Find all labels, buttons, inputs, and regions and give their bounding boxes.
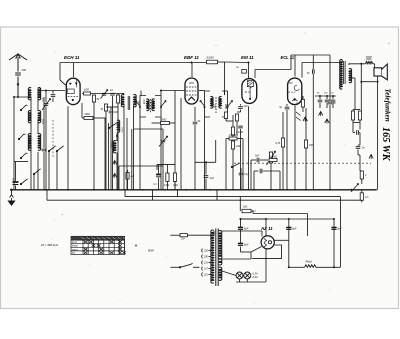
wire em left drop [225, 139, 227, 190]
wire 330 rail upper [329, 63, 331, 102]
wire AZ heater loop [252, 245, 282, 259]
svg-text:Zf = 468 kHz: Zf = 468 kHz [40, 243, 59, 247]
claw contact tone 1 [319, 112, 323, 117]
wire grid cap tail [52, 98, 54, 103]
svg-text:200: 200 [21, 68, 27, 72]
wire AF to ECL grid [263, 170, 280, 172]
svg-text:0,8: 0,8 [181, 238, 185, 241]
ground main [8, 190, 14, 205]
svg-text:0,1MΩ: 0,1MΩ [229, 134, 236, 137]
capacitor EM 50p [238, 126, 243, 128]
resistor 2M AVC [161, 122, 170, 125]
capacitor electrolytic divider [156, 175, 161, 177]
wire EM drop [240, 129, 242, 190]
wire EBF cath drop [194, 125, 196, 190]
antenna symbol [9, 54, 27, 97]
wire tap stub 150 [209, 256, 211, 258]
scan fleck [135, 245, 137, 247]
svg-text:Telefunken: Telefunken [383, 89, 391, 122]
stub pri top [213, 231, 215, 235]
svg-text:EM 11: EM 11 [241, 55, 254, 60]
speaker LS [374, 64, 387, 80]
resistor right 0.3M [360, 171, 363, 179]
svg-text:Mittel: Mittel [72, 245, 78, 248]
wire div cap down [158, 178, 160, 190]
svg-text:U50: U50 [84, 88, 89, 92]
capacitor filter 8uF a [238, 228, 243, 230]
stub res up [127, 170, 129, 173]
stub cap left [353, 132, 355, 134]
wire tap stub 110 [209, 274, 211, 276]
wire between osc coils [116, 133, 118, 141]
wire fuse to trafo [187, 234, 214, 236]
wire C1 top [45, 91, 47, 103]
capacitor 1n lower [204, 176, 209, 178]
svg-text:0,05M: 0,05M [207, 56, 215, 60]
stub [225, 119, 227, 122]
capacitor padder 100 [109, 111, 114, 113]
wire right down3 [359, 155, 361, 171]
wire chain link [232, 121, 234, 127]
scan flecks group [51, 32, 390, 303]
capacitor ECL 10n [312, 69, 314, 74]
wire C2 drop [162, 143, 164, 190]
junction osc coils [116, 135, 118, 137]
wire stub EM [254, 70, 256, 79]
wire det out row [195, 161, 216, 163]
junction tone a [319, 95, 321, 97]
tube internals U4 ECL11 [289, 83, 300, 101]
wire lamp bottom [236, 281, 266, 283]
svg-text:0,18: 0,18 [41, 119, 44, 124]
wire EBF g drop [180, 98, 182, 190]
capacitor right 0.1 [357, 130, 359, 135]
selector contact 110 [201, 273, 204, 277]
svg-text:0,2: 0,2 [41, 98, 44, 102]
wire C1 drop [45, 107, 47, 190]
svg-text:1MΩ: 1MΩ [173, 185, 178, 187]
svg-text:6,3V: 6,3V [253, 272, 258, 275]
inductor output trafo secondary [349, 69, 352, 83]
capacitor tone 0.1 [239, 173, 244, 175]
switch tone [231, 163, 239, 168]
wire det up [215, 140, 217, 162]
resistor osc 50k [104, 104, 107, 111]
stub [122, 93, 124, 95]
wire S5 drop [33, 174, 35, 190]
svg-text:0,58: 0,58 [142, 100, 144, 105]
table waveband chart frame [71, 236, 125, 254]
wire C2 top stub [162, 129, 164, 139]
stub2 [302, 107, 304, 112]
tail tb [326, 103, 328, 108]
wire antenna coil rail B [37, 88, 39, 111]
wire antenna input horizontal [14, 96, 31, 98]
capacitor antenna series [15, 72, 21, 77]
wire osc coil drop [116, 153, 118, 190]
wire osc grid link [105, 111, 107, 118]
selector contact 127 [201, 267, 204, 271]
wire diag to tube [251, 247, 262, 253]
svg-text:165 WK: 165 WK [380, 127, 391, 162]
resistor 2M osc grid [84, 117, 93, 120]
stub up [232, 115, 234, 121]
wire coil to ECH grid [40, 90, 65, 92]
wire switch drop b [48, 151, 50, 190]
wire AF cap in [254, 170, 258, 172]
wire ECL screen [301, 63, 303, 78]
junction bus x287 [286, 189, 288, 191]
wire em left stub [226, 138, 229, 140]
tube envelope U4 ECL11 [288, 78, 302, 105]
potentiometer volume track [269, 152, 272, 163]
wire switch out to selector [193, 266, 200, 268]
tube envelope U3 EM11 [242, 79, 257, 104]
stub res [117, 94, 119, 96]
wire EM-ECL row [255, 69, 291, 71]
junction rail branch [360, 81, 362, 83]
junction B+ a [288, 218, 290, 220]
inductor coupling La [121, 95, 124, 107]
capacitor EM 2u [238, 107, 243, 109]
wire res50 drop [93, 102, 95, 190]
diode arrows ECL [296, 112, 301, 121]
capacitor block 0.04 lower left [13, 182, 19, 185]
variable capacitor tuning C1 [44, 104, 49, 106]
wire drop 177 to line B [177, 190, 179, 197]
wire IF2 pri drop [204, 117, 206, 190]
svg-text:Lang: Lang [72, 248, 78, 251]
wire chain mid [232, 135, 234, 141]
junction IF2 trim b [227, 106, 229, 108]
wire AZ cathode out [274, 239, 289, 241]
wire stub up line B [124, 190, 126, 197]
wire res out [93, 117, 106, 119]
bracket IF1 secondary [155, 96, 161, 118]
wire speaker bottom rail [377, 76, 379, 190]
mechanical link dashed tone [234, 162, 371, 164]
wire tone net top [315, 95, 336, 97]
svg-text:1nΩ: 1nΩ [210, 178, 215, 180]
svg-text:ECL 11: ECL 11 [281, 55, 295, 60]
resistor 0.7M [269, 159, 277, 162]
junction bus x295 [294, 189, 296, 191]
wire IF1 sec top [160, 91, 162, 96]
wire 330 rail lower [329, 105, 331, 190]
wire drop to line A [46, 190, 48, 200]
wire cap rail 334 down [333, 219, 335, 267]
claw contact osc 2 [113, 174, 117, 178]
tube envelope U2 EBF11 [185, 78, 198, 104]
bracket IF1 primary [140, 96, 146, 118]
svg-text:220: 220 [203, 251, 209, 253]
svg-text:5nF: 5nF [255, 155, 260, 158]
capacitor trimmer grid [102, 93, 107, 95]
wire pot drop [270, 163, 272, 190]
wire to AF cap [251, 159, 256, 161]
wire extend D line [241, 218, 267, 220]
stub lamp1 down [239, 279, 241, 282]
junction IF1 [160, 90, 162, 92]
inductor IF1 primary [147, 99, 150, 111]
inductor secondary heater [219, 267, 222, 280]
wire stub cap ECL [312, 55, 314, 69]
wire right down2 [359, 133, 361, 146]
inductor osc coil L4 [117, 120, 120, 132]
wire res to IF2 [218, 61, 225, 63]
junction speaker bottom [377, 81, 379, 83]
wire left rail vertical [13, 97, 15, 190]
tail ta [319, 103, 321, 108]
inductor field coil [305, 265, 317, 268]
wire res drop [117, 103, 119, 190]
svg-text:150: 150 [309, 144, 314, 147]
stub 160 out [251, 210, 253, 212]
wire tap stub 127 [209, 268, 211, 270]
resistor ECL cath 150 [304, 140, 307, 148]
junction bus x330 [329, 189, 331, 191]
fuse 0.8A [180, 234, 187, 237]
tube internals U2 EBF11 [186, 83, 196, 101]
wire div res down [166, 181, 168, 189]
switch S7 [56, 146, 63, 152]
wire padder top [110, 107, 112, 110]
adjust arrow IF2 trim b [228, 101, 233, 107]
wire EBF cathode down [194, 107, 196, 121]
stub to line [361, 200, 363, 202]
junction IF2 trim a [204, 106, 206, 108]
stub [357, 144, 359, 147]
core coupling transformer [128, 96, 130, 110]
capacitor tone on output [328, 102, 333, 104]
wire IF1 pri drop [139, 117, 141, 190]
wire grid leak drop [282, 147, 284, 190]
table grid [71, 236, 125, 254]
wire rail to res 0.05M [161, 62, 207, 64]
switch osc S8 [108, 123, 116, 129]
wire AF cap out [260, 159, 268, 161]
wire line D y219 [241, 218, 335, 220]
wire tone stub [240, 168, 242, 172]
wire cap feed up [240, 219, 242, 227]
junction feed [265, 218, 267, 220]
junction D left [240, 218, 242, 220]
wire AVC into tube grid [60, 80, 66, 85]
inductor mains primary [211, 230, 214, 283]
wire sec top stub [348, 63, 350, 65]
wire pair bottom [353, 122, 360, 124]
bracket IF2 secondary [222, 91, 228, 117]
capacitor tone a [318, 100, 323, 102]
tail tc [332, 103, 334, 108]
svg-text:0,04: 0,04 [13, 177, 16, 182]
wire em res link [237, 138, 243, 140]
junction antenna node [17, 96, 19, 98]
table X marks [84, 241, 126, 254]
stub down [361, 179, 363, 184]
wire left tail [156, 164, 158, 170]
stub down [252, 211, 254, 214]
junction right pot on bus [350, 189, 352, 191]
wire grid cap stub [52, 91, 54, 94]
svg-text:8µF: 8µF [244, 228, 249, 231]
wire EM plate top [248, 63, 250, 79]
wire up hv [250, 252, 252, 259]
junction bus x94 [93, 189, 95, 191]
wire grid leak up [282, 112, 284, 138]
switch S6 [48, 146, 55, 152]
wire em link [240, 110, 242, 113]
wire ECL top rail [291, 54, 330, 56]
wire line C y213 [253, 213, 308, 215]
junction B+ b [333, 218, 335, 220]
wire AVC stub [152, 122, 161, 124]
junction EM plate rail [248, 62, 250, 64]
inductor coupling Lb [134, 95, 137, 107]
wire 307 down [307, 214, 309, 237]
wire HV top to AZ anode [222, 230, 262, 232]
wire B+ right rail top [360, 64, 362, 111]
wire rail over EM [225, 61, 249, 64]
capacitor EM top nipple [242, 70, 247, 74]
resistor right lower 0.3M [360, 193, 363, 201]
wire heater to lamp [222, 271, 236, 276]
wire chain drop [232, 149, 234, 190]
wire IF2 top feed stub [224, 91, 226, 95]
selector contact 220 [201, 249, 204, 253]
inductor IF1 secondary [152, 99, 155, 111]
wire field coil out [316, 266, 340, 268]
wire heater line A [47, 199, 362, 201]
junction bus x45 [44, 189, 46, 191]
svg-text:2000: 2000 [365, 58, 372, 61]
switch S4 [20, 179, 27, 185]
wire pair top [353, 109, 360, 111]
capacitor tone b [325, 100, 330, 102]
wire chain top link [226, 120, 233, 122]
capacitor electrolytic 8uF c [286, 228, 291, 230]
wire ECH plate top [73, 63, 75, 78]
stub4 [358, 154, 360, 156]
wire speaker branch to rail [361, 81, 377, 83]
wire AVC left drop [59, 63, 61, 81]
wire trafo pri top stub [341, 60, 343, 63]
tube internals U1 ECH11 [67, 80, 78, 101]
wire HV bottom out [222, 258, 251, 260]
switch band S1 [20, 105, 27, 111]
svg-text:TA: TA [72, 252, 75, 255]
junction bus x210 [209, 189, 211, 191]
svg-text:EBF 11: EBF 11 [184, 55, 199, 60]
resistor 0.05M screen [207, 60, 218, 64]
wire line B y196 [125, 196, 341, 198]
lamp pilot 2 [244, 272, 251, 279]
resistor EM 1M [235, 114, 238, 121]
adjust arrow IF1 trim a [136, 101, 140, 106]
resistor chain 1M [231, 141, 234, 149]
stub ta [319, 96, 321, 99]
wire branch down to 160ohm [239, 197, 241, 211]
wire between caps [240, 230, 242, 243]
capacitor 10n [110, 93, 115, 95]
capacitor ECL cath 5u [285, 107, 290, 109]
resistor osc 25 [126, 173, 129, 180]
switch S5 [33, 169, 40, 175]
stub pa [352, 110, 354, 112]
inductor antenna coil L2b [38, 111, 41, 123]
wire ground bus [10, 189, 377, 191]
wire osc rail 5 [131, 129, 133, 190]
stub [240, 104, 242, 106]
mechanical link dashed [52, 120, 54, 158]
inductor IF2 secondary [219, 97, 222, 109]
wire ECL cath drop [286, 110, 288, 190]
capacitor EBF cathode 50 [193, 122, 198, 124]
inductor antenna coil L3b [38, 134, 41, 151]
junction EBF plate rail [191, 62, 193, 64]
wire top AVC rail [60, 62, 161, 64]
wire coil b down [133, 105, 135, 190]
wire osc drop [105, 118, 107, 190]
wire AZ top feed [265, 219, 267, 237]
junction rail node [13, 96, 15, 98]
wire tap stub 220 [209, 250, 211, 252]
svg-text:2MΩ: 2MΩ [160, 119, 166, 122]
stub 1n down [205, 179, 207, 190]
wire cap 100 feed [43, 97, 45, 148]
svg-text:0,0005: 0,0005 [110, 141, 112, 148]
junction bus x186 [185, 189, 187, 191]
svg-text:6000: 6000 [28, 139, 31, 145]
resistor ECL grid 0.7M [281, 138, 284, 147]
wire det link2 [226, 118, 228, 120]
wire link coil top [39, 88, 41, 91]
wire ECL bottom drop [294, 106, 296, 190]
inductor antenna coil L1b [38, 88, 41, 100]
wire osc rail 2 [108, 123, 110, 190]
wire lower link left [14, 161, 28, 163]
selector contact 125 [201, 261, 204, 265]
wire IF1 sec drop [160, 117, 162, 190]
junction field b [288, 266, 290, 268]
wire zig to speaker [373, 63, 375, 65]
switch band S2 [18, 134, 25, 140]
resistor right a [351, 111, 354, 120]
wire AVC out [170, 122, 176, 124]
stub3 [357, 150, 359, 156]
wire EBF plate to rail [191, 63, 193, 78]
wire 1n up [205, 162, 207, 174]
wire divider top row [157, 163, 176, 165]
wire trafo sec to resistor [349, 63, 366, 65]
junction C1 top [45, 90, 47, 92]
inductor secondary rect heater [219, 259, 222, 265]
claw contact tone 2 [325, 119, 329, 124]
stub up to bus [361, 190, 363, 193]
wire drop 152 to line A [152, 190, 154, 200]
wire ECH triode down [81, 103, 83, 118]
adjust arrow tuning C1 [42, 99, 51, 111]
variable capacitor oscillator C2 [161, 140, 166, 142]
junction ground [10, 189, 12, 191]
wire cathode rail down [288, 240, 290, 267]
wire to res 2M [82, 117, 84, 119]
claw contact osc 1 [113, 161, 117, 165]
wire cap down [240, 247, 242, 253]
wire em res down [236, 121, 238, 136]
resistor chain 0.1M [231, 127, 234, 135]
capacitor grid 100 [51, 95, 56, 97]
